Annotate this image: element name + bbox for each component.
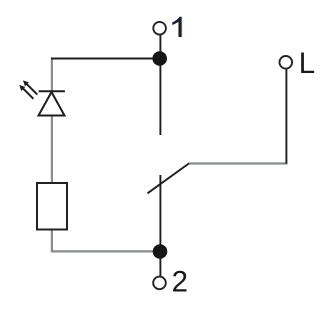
svg-text:L: L: [299, 47, 315, 80]
svg-text:2: 2: [172, 265, 188, 298]
